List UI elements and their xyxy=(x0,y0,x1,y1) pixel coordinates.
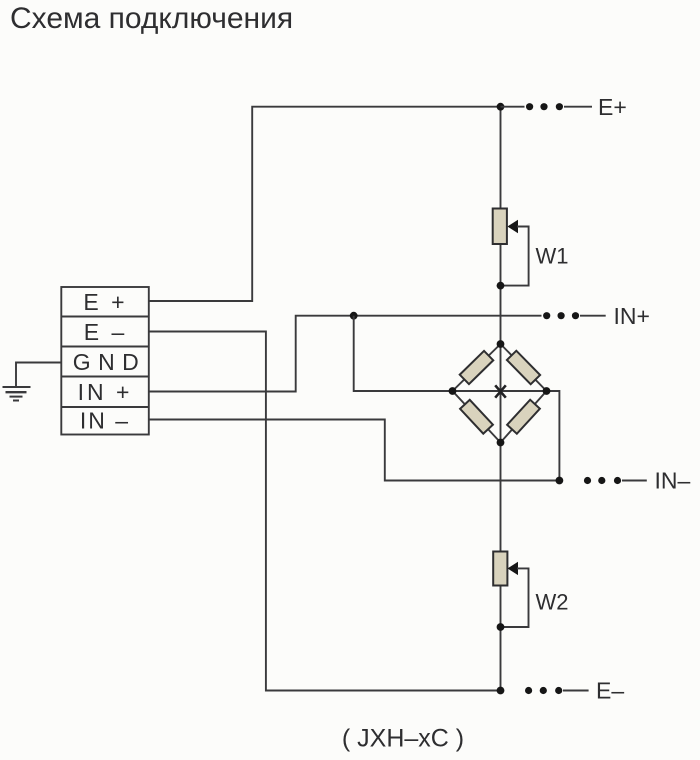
wire IN- terminal to IN- rail xyxy=(149,420,560,481)
svg-text:G N D: G N D xyxy=(73,349,139,375)
label W1 xyxy=(536,244,569,269)
potentiometer W2 xyxy=(493,552,518,586)
bridge resistor bottom-right xyxy=(507,400,540,434)
svg-text:W2: W2 xyxy=(536,589,569,614)
net label E- xyxy=(596,678,624,704)
label W2 xyxy=(536,589,569,614)
bridge edge wires xyxy=(453,344,547,443)
terminal label IN+ xyxy=(78,379,133,405)
bridge center cross mark xyxy=(495,385,506,397)
node W1 return junction xyxy=(497,282,505,290)
terminal block outline xyxy=(61,287,149,435)
svg-text:W1: W1 xyxy=(536,244,569,269)
wire IN- lead xyxy=(622,480,647,482)
wire W2 wiper return xyxy=(501,568,529,627)
wire GND to ground xyxy=(16,363,61,387)
bridge resistor top-right xyxy=(507,351,540,385)
wire E- terminal to bottom rail xyxy=(149,332,501,691)
svg-text:Схема подключения: Схема подключения xyxy=(10,2,293,35)
E+ lead dots xyxy=(526,103,563,110)
svg-text:( JXH–xC ): ( JXH–xC ) xyxy=(342,725,464,753)
terminal label IN- xyxy=(80,408,130,434)
bridge resistor bottom-left xyxy=(460,400,493,434)
svg-text:IN+: IN+ xyxy=(614,303,650,329)
wire IN+ terminal to IN+ net xyxy=(149,316,354,392)
terminal label GND xyxy=(73,349,139,375)
wire W1 wiper return xyxy=(501,227,529,286)
wire E+ terminal to top bus xyxy=(149,107,501,301)
svg-text:E –: E – xyxy=(84,319,128,345)
vertical bus wire xyxy=(500,107,502,691)
node E- bottom junction xyxy=(497,687,505,695)
svg-text:IN–: IN– xyxy=(655,468,691,494)
svg-text:E +: E + xyxy=(83,289,127,315)
svg-text:IN +: IN + xyxy=(78,379,133,405)
wire bridge horizontal xyxy=(453,390,547,392)
caption (JXH-xC) xyxy=(342,725,464,753)
net label E+ xyxy=(598,94,627,120)
title "Схема подключения" xyxy=(10,2,293,35)
terminal label E+ xyxy=(83,289,127,315)
terminal label E- xyxy=(84,319,128,345)
net label IN- xyxy=(655,468,691,494)
E- lead dots xyxy=(525,687,562,694)
wire IN+ rail xyxy=(354,315,606,317)
wire E- lead xyxy=(563,690,589,692)
node IN- junction xyxy=(556,477,564,485)
node IN+ branch junction xyxy=(350,312,358,320)
wire IN+ branch to bridge left node xyxy=(354,316,453,391)
node E+ top junction xyxy=(497,103,505,111)
svg-text:E+: E+ xyxy=(598,94,627,120)
ground xyxy=(3,387,31,401)
bridge resistor top-left xyxy=(460,351,494,384)
IN+ lead dots xyxy=(543,312,579,319)
wire E+ lead xyxy=(501,106,593,108)
svg-text:E–: E– xyxy=(596,678,624,704)
net label IN+ xyxy=(614,303,650,329)
node bridge left xyxy=(449,387,457,395)
node bridge right xyxy=(543,387,551,395)
node bridge top xyxy=(497,340,505,348)
potentiometer W1 xyxy=(493,209,518,245)
IN- lead dots xyxy=(584,477,621,484)
wire bridge right to IN- rail xyxy=(547,391,560,481)
node W2 return junction xyxy=(497,623,505,631)
svg-text:IN –: IN – xyxy=(80,408,130,434)
node bridge bottom xyxy=(497,439,505,447)
